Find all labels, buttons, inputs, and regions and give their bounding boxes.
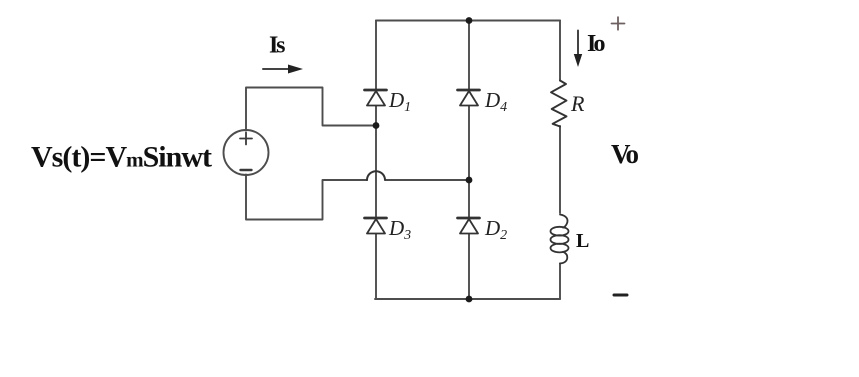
label plus (output) [612, 17, 625, 30]
wire middle bridge leg (D4/D2 branch) [468, 21, 470, 300]
wire top bus [376, 20, 560, 22]
svg-text:R: R [570, 91, 585, 116]
svg-text:Vs(t)=VmSinwt: Vs(t)=VmSinwt [31, 141, 212, 174]
diode D4 symbol [458, 90, 480, 106]
svg-text:L: L [576, 230, 589, 252]
svg-text:Io: Io [587, 31, 606, 57]
svg-text:D1: D1 [388, 88, 411, 115]
inductor L symbol [551, 215, 569, 264]
label minus (output) [614, 294, 627, 297]
wire source bottom lead [246, 175, 367, 220]
diode D1 symbol [365, 90, 387, 106]
wire left bridge leg (D1/D3 branch) [375, 21, 377, 300]
node B (middle junction) [466, 177, 473, 184]
diode D2 symbol [458, 218, 480, 234]
source minus mark [241, 169, 252, 171]
svg-text:D2: D2 [484, 216, 507, 243]
wire bottom bus [375, 298, 560, 300]
arrow Is [263, 65, 303, 74]
svg-text:Is: Is [269, 33, 286, 59]
wire middle with hop [386, 179, 469, 181]
source V1 (Vs) [224, 130, 269, 175]
node top junction [466, 17, 473, 24]
wire source top lead [246, 88, 374, 131]
arrow Io [574, 31, 582, 68]
svg-text:D4: D4 [484, 88, 507, 115]
svg-text:D3: D3 [388, 216, 411, 243]
resistor R symbol [551, 81, 567, 127]
source plus mark [240, 133, 252, 145]
wire right load leg [559, 21, 561, 300]
hop (wire crossover) [367, 171, 385, 180]
diode D3 symbol [365, 218, 387, 234]
node bottom junction [466, 296, 473, 303]
svg-text:Vo: Vo [611, 139, 639, 169]
node A (D1 anode junction) [373, 122, 380, 129]
